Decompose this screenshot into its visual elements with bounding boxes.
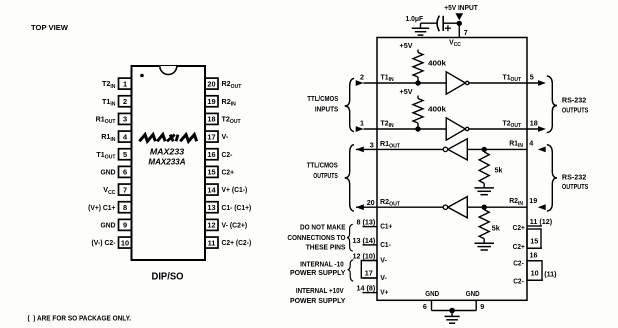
output arrow pin 20 xyxy=(356,204,364,210)
svg-text:15: 15 xyxy=(530,237,538,246)
svg-text:16: 16 xyxy=(207,150,215,159)
svg-text:+5V INPUT: +5V INPUT xyxy=(444,3,478,12)
svg-text:9: 9 xyxy=(123,221,127,230)
pin 1 box xyxy=(119,78,132,89)
pin 5 box xyxy=(119,149,132,160)
resistor 5k #2 xyxy=(479,210,489,239)
brace do-not-connect xyxy=(347,224,353,251)
IC package body U1 MAX233 DIP/SO xyxy=(132,66,206,260)
wire R2 line xyxy=(356,206,527,208)
receiver buffer R1 xyxy=(448,139,468,160)
svg-text:5: 5 xyxy=(530,72,534,81)
svg-text:TTL/CMOS: TTL/CMOS xyxy=(307,161,338,170)
svg-text:400k: 400k xyxy=(428,105,446,114)
svg-text:MAX233: MAX233 xyxy=(150,147,185,157)
wire stub V+ xyxy=(363,292,378,294)
svg-text:RS-232: RS-232 xyxy=(562,96,586,105)
svg-text:15: 15 xyxy=(207,168,215,177)
svg-text:C2+: C2+ xyxy=(222,168,235,177)
output arrow pin 3 xyxy=(356,147,364,153)
node: junction dot on T2IN line xyxy=(415,126,420,131)
svg-text:C2+ (C2-): C2+ (C2-) xyxy=(222,238,252,247)
wire stub C2+ pin 15 xyxy=(527,247,542,249)
svg-text:6: 6 xyxy=(123,168,127,177)
svg-text:9: 9 xyxy=(480,302,484,311)
resistor 5k #1 xyxy=(479,152,489,183)
pin 11 box xyxy=(205,237,218,248)
svg-text:INPUTS: INPUTS xyxy=(315,105,339,114)
svg-text:3: 3 xyxy=(370,140,374,149)
ground (main) xyxy=(445,315,460,317)
svg-text:14 (8): 14 (8) xyxy=(357,284,376,293)
svg-text:V-: V- xyxy=(380,273,387,282)
svg-text:4: 4 xyxy=(529,138,533,147)
wire stub V- xyxy=(363,277,378,279)
svg-text:RS-232: RS-232 xyxy=(562,172,586,181)
pin 1 indicator dot xyxy=(140,74,144,78)
receiver buffer R2 xyxy=(448,197,468,218)
svg-text:19: 19 xyxy=(207,97,215,106)
svg-text:2: 2 xyxy=(123,97,127,106)
brace internal -10 xyxy=(348,260,354,281)
svg-text:C1+: C1+ xyxy=(380,222,392,231)
input arrow pin 4 xyxy=(538,147,546,153)
ground (5k #1) xyxy=(474,187,494,189)
wire GND pin 6 drop xyxy=(431,300,433,310)
inverter buffer T1 xyxy=(446,72,465,94)
output arrow pin 18 xyxy=(538,126,546,132)
wire to ground xyxy=(451,311,453,317)
wire stub C1+ xyxy=(363,226,378,228)
ground (5k #2) xyxy=(474,242,494,244)
svg-text:20: 20 xyxy=(207,79,215,88)
pin 4 box xyxy=(119,131,132,142)
pin 20 box xyxy=(205,78,218,89)
svg-text:(11): (11) xyxy=(544,270,557,279)
svg-text:10: 10 xyxy=(531,269,539,278)
svg-text:CONNECTIONS TO: CONNECTIONS TO xyxy=(287,233,345,242)
svg-text:+5V: +5V xyxy=(400,41,413,50)
svg-text:12: 12 xyxy=(207,221,215,230)
svg-text:DIP/SO: DIP/SO xyxy=(152,272,184,283)
node: GND junction dot xyxy=(449,308,455,314)
+5V input arrow xyxy=(455,13,463,20)
pin 6 box xyxy=(119,166,132,177)
svg-text:MAX233A: MAX233A xyxy=(148,157,185,167)
inverter buffer T2 xyxy=(446,118,465,140)
pin 13 box xyxy=(205,202,218,213)
svg-text:OUTPUTS: OUTPUTS xyxy=(562,182,589,191)
svg-text:1: 1 xyxy=(360,118,364,127)
svg-text:13 (14): 13 (14) xyxy=(353,236,376,245)
svg-text:V-: V- xyxy=(380,255,387,264)
svg-text:( ) ARE FOR SO PACKAGE ONLY.: ( ) ARE FOR SO PACKAGE ONLY. xyxy=(28,314,132,323)
functional diagram chip outline xyxy=(377,38,527,301)
node: junction dot R1IN xyxy=(482,147,487,152)
capacitor curved plate xyxy=(437,16,439,32)
svg-text:20: 20 xyxy=(367,198,375,207)
svg-text:11 (12): 11 (12) xyxy=(530,217,553,226)
node: junction dot R2IN xyxy=(482,205,487,210)
resistor 400k #2 xyxy=(417,96,419,99)
pin 19 box xyxy=(205,96,218,107)
pin 10 box xyxy=(527,261,542,280)
svg-text:8: 8 xyxy=(123,203,127,212)
pin 10 box xyxy=(119,237,132,248)
svg-text:C2+: C2+ xyxy=(513,242,525,251)
svg-text:GND: GND xyxy=(425,289,439,298)
svg-text:7: 7 xyxy=(464,28,468,37)
package notch xyxy=(160,66,177,75)
svg-text:16: 16 xyxy=(530,250,538,259)
wire stub C2+ pin 11 xyxy=(527,225,542,227)
pin 8 box xyxy=(119,202,132,213)
pin 9 box xyxy=(119,219,132,230)
pin 15 box xyxy=(527,229,541,248)
node: junction dot on T1IN line xyxy=(415,80,420,85)
node: Vcc junction dot xyxy=(457,21,462,26)
svg-text:INTERNAL +10V: INTERNAL +10V xyxy=(296,286,345,295)
wire T1OUT line pin 5 xyxy=(469,82,538,84)
brace TTL/CMOS inputs xyxy=(345,78,354,131)
svg-text:C1-: C1- xyxy=(380,240,391,249)
capacitor plus sign xyxy=(445,27,451,29)
pin 17 box xyxy=(205,131,218,142)
svg-text:C2-: C2- xyxy=(222,150,233,159)
svg-text:C2+: C2+ xyxy=(513,223,525,232)
input arrow pin 19 xyxy=(538,204,546,210)
brace TTL/CMOS outputs xyxy=(345,145,354,212)
svg-text:12 (10): 12 (10) xyxy=(353,251,376,260)
svg-text:GND: GND xyxy=(101,220,117,229)
wire R1 line xyxy=(356,148,527,150)
capacitor plus plate xyxy=(442,16,444,31)
svg-text:+5V: +5V xyxy=(400,87,413,96)
svg-text:400k: 400k xyxy=(428,59,446,68)
resistor 400k #1 xyxy=(417,50,419,53)
svg-text:V+: V+ xyxy=(380,288,388,297)
svg-text:THESE PINS: THESE PINS xyxy=(306,242,346,251)
brace RS-232 outputs (bottom) xyxy=(547,145,557,212)
svg-text:V+ (C1-): V+ (C1-) xyxy=(222,185,248,194)
wire stub C2- pin 10 xyxy=(527,279,543,281)
pin 7 box xyxy=(119,184,132,195)
svg-text:GND: GND xyxy=(101,168,117,177)
pin 16 box xyxy=(205,149,218,160)
svg-text:5k: 5k xyxy=(495,166,503,175)
wire stub C1- xyxy=(363,244,378,246)
pin 17 box xyxy=(361,261,377,279)
wire cap to ground xyxy=(421,22,438,24)
brace RS-232 outputs (top) xyxy=(547,76,557,133)
svg-text:1.0μF: 1.0μF xyxy=(406,14,424,23)
input arrow pin 2 xyxy=(356,80,364,86)
svg-text:C1- (C1+): C1- (C1+) xyxy=(222,203,252,212)
svg-text:13: 13 xyxy=(207,203,215,212)
svg-text:TOP VIEW: TOP VIEW xyxy=(31,23,68,32)
output arrow pin 5 xyxy=(538,80,546,86)
svg-text:11: 11 xyxy=(208,238,216,247)
wire T1IN input line pin 2 xyxy=(364,82,447,84)
svg-text:GND: GND xyxy=(466,289,480,298)
svg-text:C2-: C2- xyxy=(513,259,524,268)
wire stub C2- pin 16 xyxy=(527,260,542,262)
svg-text:18: 18 xyxy=(207,115,215,124)
svg-text:POWER SUPPLY: POWER SUPPLY xyxy=(290,268,345,277)
svg-text:14: 14 xyxy=(207,185,216,194)
svg-text:POWER SUPPLY: POWER SUPPLY xyxy=(290,296,345,305)
ground (capacitor) xyxy=(412,27,430,29)
svg-text:18: 18 xyxy=(530,118,538,127)
svg-text:OUTPUTS: OUTPUTS xyxy=(313,171,338,180)
svg-text:5: 5 xyxy=(123,150,127,159)
pin 3 box xyxy=(119,113,132,124)
pin 2 box xyxy=(119,96,132,107)
svg-text:V-: V- xyxy=(222,132,229,141)
pin 14 box xyxy=(205,184,218,195)
svg-text:10: 10 xyxy=(121,238,129,247)
svg-text:8 (13): 8 (13) xyxy=(357,218,376,227)
svg-text:TTL/CMOS: TTL/CMOS xyxy=(307,94,338,103)
svg-text:(V+) C1+: (V+) C1+ xyxy=(88,203,116,212)
svg-text:(V-) C2-: (V-) C2- xyxy=(92,238,116,247)
wire GND pin 9 drop xyxy=(475,300,477,310)
pin 12 box xyxy=(205,219,218,230)
wire stub V- xyxy=(363,260,378,262)
svg-text:19: 19 xyxy=(529,196,537,205)
svg-text:2: 2 xyxy=(360,72,364,81)
svg-text:7: 7 xyxy=(123,185,127,194)
svg-text:17: 17 xyxy=(207,132,215,141)
svg-text:3: 3 xyxy=(123,115,127,124)
svg-text:17: 17 xyxy=(365,269,373,278)
input arrow pin 1 xyxy=(356,126,364,132)
svg-text:OUTPUTS: OUTPUTS xyxy=(562,105,589,114)
pin 18 box xyxy=(205,113,218,124)
svg-text:C2-: C2- xyxy=(513,277,524,286)
wire GND bus xyxy=(432,310,477,312)
wire T2OUT line pin 18 xyxy=(469,128,538,130)
wire T2IN input line pin 1 xyxy=(364,128,447,130)
wire cap to node xyxy=(443,22,457,24)
svg-text:DO NOT MAKE: DO NOT MAKE xyxy=(300,222,346,231)
pin 15 box xyxy=(205,166,218,177)
svg-text:1: 1 xyxy=(123,79,127,88)
svg-text:V- (C2+): V- (C2+) xyxy=(222,220,248,229)
svg-text:5k: 5k xyxy=(492,224,500,233)
svg-text:6: 6 xyxy=(423,302,427,311)
wire to pin 7 xyxy=(458,23,460,37)
MAXIM logo xyxy=(139,135,155,142)
